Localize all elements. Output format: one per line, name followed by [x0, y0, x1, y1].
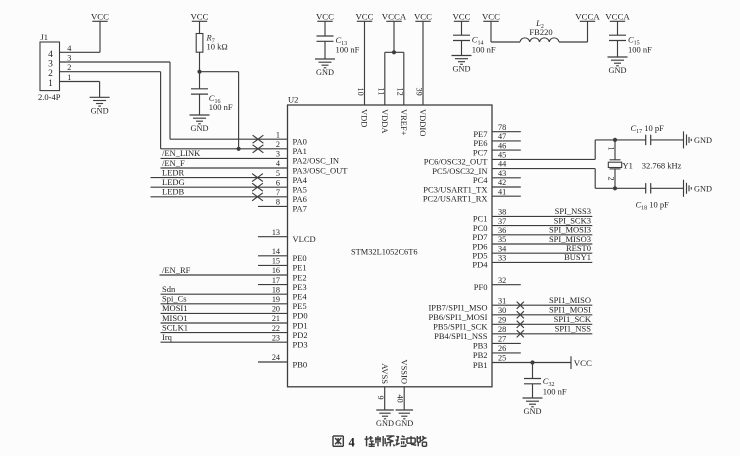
wire net SPI1_NSS: [492, 333, 592, 335]
pin number 13: [272, 228, 280, 237]
no-connect X on PA1: [253, 145, 264, 153]
pin number 32: [498, 276, 506, 285]
pin label PB4/SPI1_NSS: [434, 331, 488, 341]
wire net SPI1_MOSI: [492, 314, 592, 316]
wire C15 to GND: [617, 41, 619, 58]
connector J1: [40, 42, 60, 91]
svg-text:GND: GND: [191, 124, 209, 133]
svg-text:VCC: VCC: [482, 11, 500, 21]
node net label SPI_MOSI3: [549, 225, 591, 235]
pin number 1 (J1 inside): [48, 79, 53, 89]
capacitor C13: [317, 36, 334, 41]
wire VCC to VDD pin 10: [364, 21, 366, 105]
wire pin 14 stub: [258, 255, 288, 257]
no-connect X on pin 31: [517, 302, 524, 309]
wire PC5/OSC32_IN to crystal: [492, 169, 646, 189]
svg-text:32: 32: [498, 276, 506, 285]
wire pin 47 stub: [492, 140, 521, 142]
svg-text:PE2: PE2: [293, 272, 307, 282]
power symbol VCC (R7): [190, 11, 208, 21]
pin number 78: [498, 123, 506, 132]
pin number 8: [276, 198, 280, 207]
node net label Spi_Cs: [162, 294, 187, 304]
pin number 17: [272, 276, 280, 285]
svg-text:FB220: FB220: [529, 27, 552, 37]
svg-text:14: 14: [272, 247, 280, 256]
svg-text:24: 24: [272, 353, 280, 362]
svg-text:2.0-4P: 2.0-4P: [38, 92, 61, 102]
svg-text:23: 23: [272, 333, 280, 342]
wire C32 to GND: [532, 384, 534, 398]
wire net SCLK1: [161, 332, 288, 334]
pin label PE3: [293, 282, 307, 292]
svg-text:1: 1: [276, 130, 280, 139]
svg-text:21: 21: [272, 314, 280, 323]
pin number 11: [377, 88, 386, 96]
wire J1 pin 3 to PA0: [60, 62, 288, 139]
svg-text:PF0: PF0: [474, 282, 488, 292]
wire L2 to VCCA: [559, 21, 588, 42]
value label C14 100 nF: [472, 45, 496, 55]
wire net LEDR: [151, 177, 288, 179]
svg-text:40: 40: [396, 395, 405, 403]
pin number 5: [276, 169, 280, 178]
pin label PE1: [293, 263, 307, 273]
pin label PB2: [473, 350, 488, 360]
svg-text:PB6/SPI1_MOSI: PB6/SPI1_MOSI: [428, 312, 487, 322]
node net label SPI1_NSS: [555, 324, 592, 334]
svg-text:100 nF: 100 nF: [209, 102, 233, 112]
svg-text:PE0: PE0: [293, 253, 307, 263]
pin label PD6: [472, 241, 487, 251]
svg-text:34: 34: [498, 244, 506, 253]
wire junction to C32: [532, 363, 534, 379]
svg-text:SPI1_NSS: SPI1_NSS: [555, 324, 592, 334]
wire to VDDA pin 11: [384, 52, 386, 105]
ground (AVSS): [376, 410, 394, 428]
pin number 20: [272, 305, 280, 314]
wire C17 to GND: [651, 139, 684, 141]
svg-text:Sdn: Sdn: [162, 284, 176, 294]
wire pin 27 stub: [492, 342, 521, 344]
pin number 33: [498, 254, 506, 263]
pin label PC2/USART1_RX: [423, 194, 488, 204]
pin number 47: [498, 132, 506, 141]
node net label MOSI1: [162, 303, 188, 313]
svg-text:PE5: PE5: [293, 301, 307, 311]
wire net SPI1_MISO: [492, 304, 592, 306]
no-connect X on pin 28: [517, 330, 524, 337]
no-connect X on pin 29: [517, 321, 524, 328]
svg-text:PA3/OSC_OUT: PA3/OSC_OUT: [293, 165, 349, 175]
svg-text:PB3: PB3: [473, 341, 488, 351]
pin number 22: [272, 324, 280, 333]
capacitor C14: [453, 35, 470, 40]
svg-text:6: 6: [276, 178, 280, 187]
pin number 24: [272, 353, 280, 362]
svg-text:LEDB: LEDB: [162, 187, 185, 197]
pin label PC0: [473, 223, 488, 233]
svg-text:VDDIO: VDDIO: [418, 109, 428, 136]
power symbol VCCA (VDDA/VREF+): [382, 11, 407, 21]
wire VCC to L2: [491, 21, 520, 42]
svg-text:8: 8: [276, 198, 280, 207]
node net label /EN_F: [162, 158, 185, 168]
wire junction to PA1 net: [200, 72, 239, 149]
pin number 43: [498, 169, 506, 178]
svg-text:4: 4: [48, 50, 53, 60]
wire J1 pin 2 to PA1: [60, 72, 288, 149]
ground (VSSIO): [395, 410, 413, 428]
pin number 25: [498, 354, 506, 363]
pin label PD4: [472, 260, 488, 270]
pin number 1: [276, 130, 280, 139]
node PB1/C32 junction: [530, 360, 534, 364]
value label C14: [472, 35, 484, 47]
node R7/C16 junction: [197, 70, 201, 74]
svg-text:AVSS: AVSS: [380, 363, 390, 384]
caption figure 4 control system circuit: [333, 436, 427, 450]
pin label PA0: [293, 137, 307, 147]
inductor L2: [520, 38, 559, 42]
wire net MISO1: [161, 322, 288, 324]
svg-text:PB4/SPI1_NSS: PB4/SPI1_NSS: [434, 331, 488, 341]
pin label PA5: [293, 185, 307, 195]
wire net /EN_F: [161, 167, 288, 169]
svg-text:PA1: PA1: [293, 146, 307, 156]
wire pin 8 stub: [258, 205, 288, 207]
value label C16 100 nF: [209, 102, 233, 112]
pin number 34: [498, 244, 506, 253]
pin label PB1: [473, 360, 488, 370]
svg-text:GND: GND: [395, 419, 413, 428]
wire net SPI_MOSI3: [492, 234, 592, 236]
wire net Sdn: [161, 293, 288, 295]
wire C14 to GND: [461, 41, 463, 56]
svg-text:C18 10 pF: C18 10 pF: [636, 200, 670, 212]
svg-text:35: 35: [498, 235, 506, 244]
svg-text:/EN_RF: /EN_RF: [162, 265, 191, 275]
pin number 12: [396, 88, 405, 96]
svg-text:32.768 kHz: 32.768 kHz: [642, 160, 682, 170]
svg-text:20: 20: [272, 305, 280, 314]
svg-text:1: 1: [607, 147, 616, 151]
capacitor C15: [609, 35, 626, 40]
pin number 42: [498, 178, 506, 187]
svg-text:4: 4: [67, 44, 71, 53]
svg-text:SPI1_MOSI: SPI1_MOSI: [549, 305, 591, 315]
pin label PA7: [293, 204, 307, 214]
ground (C17): [684, 131, 712, 148]
node net label SPI1_MISO: [549, 295, 591, 305]
svg-text:Spi_Cs: Spi_Cs: [162, 294, 187, 304]
node net label SPI_SCK3: [554, 215, 591, 225]
pin number 16: [272, 266, 280, 275]
svg-text:19: 19: [272, 295, 280, 304]
value label C13: [336, 35, 348, 47]
pin number 19: [272, 295, 280, 304]
wire net Irq: [161, 341, 288, 343]
ground (C15): [608, 57, 628, 75]
wire PC6/OSC32_OUT to crystal: [492, 140, 646, 160]
wire pin 42 stub: [492, 186, 521, 188]
ground (C32): [523, 398, 543, 416]
svg-text:16: 16: [272, 266, 280, 275]
value label C17 10 pF: [631, 123, 665, 135]
power symbol VCC (C13): [316, 11, 334, 21]
svg-text:PD1: PD1: [293, 320, 308, 330]
svg-text:GND: GND: [609, 66, 627, 75]
svg-text:GND: GND: [453, 65, 471, 74]
crystal Y1: [608, 160, 621, 169]
svg-text:C17 10 pF: C17 10 pF: [631, 123, 665, 135]
wire PB1 to VCC: [492, 362, 571, 364]
wire AVSS to GND: [384, 387, 386, 410]
svg-text:SPI1_SCK: SPI1_SCK: [554, 314, 592, 324]
pin label PC6/OSC32_OUT: [424, 157, 489, 167]
svg-text:VCC: VCC: [452, 11, 470, 21]
wire pin 26 stub: [492, 352, 521, 354]
pin label PC4: [473, 175, 488, 185]
svg-text:VCC: VCC: [316, 11, 334, 21]
no-connect X on pin 30: [517, 311, 524, 318]
pin label VDD: [360, 109, 370, 127]
svg-text:13: 13: [272, 228, 280, 237]
pin label PC5/OSC32_IN: [432, 166, 487, 176]
pin number 29: [498, 316, 506, 325]
capacitor C32: [524, 379, 541, 384]
wire net /EN_RF: [160, 274, 288, 276]
svg-text:2: 2: [276, 140, 280, 149]
node VCCA junction: [392, 50, 396, 54]
svg-text:IPB7/SPI1_MSO: IPB7/SPI1_MSO: [428, 303, 487, 313]
svg-text:GND: GND: [376, 419, 394, 428]
svg-text:100 nF: 100 nF: [472, 45, 496, 55]
wire VCC to R7: [199, 21, 201, 33]
value label 10 kOhm: [207, 41, 228, 51]
pin label PE5: [293, 301, 307, 311]
label STM32L1052C6T6: [351, 248, 418, 257]
pin number 18: [272, 285, 280, 294]
power symbol VCCA (L2 right): [575, 11, 600, 21]
power symbol VCC (C14): [452, 11, 470, 21]
svg-text:2: 2: [48, 69, 53, 79]
power symbol VCCA (C15): [605, 11, 630, 21]
wire pin 17 stub: [258, 284, 288, 286]
pin number 9: [376, 396, 385, 400]
node net label SCLK1: [162, 322, 188, 332]
svg-text:PA4: PA4: [293, 175, 308, 185]
pin number 3 (J1 inside): [48, 60, 53, 70]
wire crystal pin 1: [614, 140, 616, 160]
pin number 40: [396, 395, 405, 403]
pin label PC7: [473, 147, 488, 157]
pin label VREF+: [399, 109, 409, 136]
pin number 44: [498, 160, 506, 169]
svg-text:15: 15: [272, 257, 280, 266]
svg-text:/EN_LINK: /EN_LINK: [162, 148, 201, 158]
svg-text:100 nF: 100 nF: [336, 45, 360, 55]
svg-text:1: 1: [67, 73, 71, 82]
svg-text:VCCA: VCCA: [575, 11, 600, 21]
svg-text:PB1: PB1: [473, 360, 488, 370]
wire pin 24 stub: [258, 361, 288, 363]
pin number 37: [498, 217, 506, 226]
pin number 2 (Y1): [607, 177, 616, 181]
pin number 2 (J1 inside): [48, 69, 53, 79]
value label C15 100 nF: [628, 45, 652, 55]
svg-text:VCC: VCC: [355, 11, 373, 21]
wire net SPI1_SCK: [492, 323, 592, 325]
value label C32: [543, 376, 555, 388]
wire pin 46 stub: [492, 149, 521, 151]
svg-text:Irq: Irq: [162, 332, 173, 342]
svg-text:PB2: PB2: [473, 350, 488, 360]
pin label IPB7/SPI1_MSO: [428, 303, 487, 313]
svg-text:VDDA: VDDA: [380, 109, 390, 134]
pin number 6: [276, 178, 280, 187]
svg-text:STM32L1052C6T6: STM32L1052C6T6: [351, 248, 418, 257]
svg-text:42: 42: [498, 178, 506, 187]
pin label PE0: [293, 253, 307, 263]
svg-text:VCC: VCC: [414, 11, 432, 21]
svg-text:MISO1: MISO1: [162, 313, 188, 323]
svg-text:10 kΩ: 10 kΩ: [207, 41, 228, 51]
svg-text:39: 39: [415, 88, 424, 96]
svg-text:BUSY1: BUSY1: [564, 252, 591, 262]
pin label PD1: [293, 320, 308, 330]
label Y1: [623, 160, 633, 170]
wire net REST0: [492, 252, 592, 254]
power symbol VCC (VDDIO): [414, 11, 432, 21]
svg-text:37: 37: [498, 217, 506, 226]
ground (C18): [684, 180, 712, 197]
pin number 2 (J1 wire): [67, 63, 71, 72]
node net label Irq: [162, 332, 173, 342]
svg-text:U2: U2: [288, 95, 298, 105]
label U2: [288, 95, 298, 105]
svg-text:27: 27: [498, 335, 506, 344]
pin number 35: [498, 235, 506, 244]
wire pin 43 stub: [492, 177, 521, 179]
svg-text:33: 33: [498, 254, 506, 263]
svg-text:/EN_F: /EN_F: [162, 158, 185, 168]
pin label PE2: [293, 272, 307, 282]
svg-text:4: 4: [349, 436, 356, 450]
pin label PD5: [472, 251, 487, 261]
svg-text:PC2/USART1_RX: PC2/USART1_RX: [423, 194, 488, 204]
value label C18 10 pF: [636, 200, 670, 212]
wire net SPI_NSS3: [492, 215, 592, 217]
capacitor C18: [646, 183, 651, 193]
pin number 2: [276, 140, 280, 149]
pin label VDDA: [380, 109, 390, 134]
svg-text:7: 7: [276, 188, 280, 197]
svg-text:31: 31: [498, 296, 506, 305]
node junction on PA1 wire: [237, 147, 241, 151]
wire pin 15 stub: [258, 264, 288, 266]
wire pin 13 stub: [258, 236, 288, 238]
label 2.0-4P: [38, 92, 61, 102]
value label R7: [206, 33, 215, 45]
value label L2: [535, 18, 544, 30]
wire VCC to C14: [461, 21, 463, 35]
ground (C13): [315, 59, 335, 77]
power symbol VCC (VDD): [355, 11, 373, 21]
no-connect X on pin 5: [252, 174, 263, 182]
node net label /EN_LINK: [162, 148, 201, 158]
svg-text:VCC: VCC: [574, 358, 592, 368]
pin number 38: [498, 208, 506, 217]
pin label PE6: [473, 138, 487, 148]
svg-text:MOSI1: MOSI1: [162, 303, 188, 313]
node net label SPI1_MOSI: [549, 305, 591, 315]
node net label LEDR: [162, 167, 185, 177]
pin label PE7: [473, 129, 487, 139]
svg-text:22: 22: [272, 324, 280, 333]
pin number 3: [276, 150, 280, 159]
svg-text:GND: GND: [694, 184, 712, 193]
pin label VLCD: [293, 234, 316, 244]
node net label REST0: [566, 243, 591, 253]
svg-text:GND: GND: [524, 407, 542, 416]
pin number 14: [272, 247, 280, 256]
pin label PB6/SPI1_MOSI: [428, 312, 487, 322]
power symbol VCC (PB1): [571, 356, 592, 369]
svg-text:PE4: PE4: [293, 292, 308, 302]
wire VCC to C13: [324, 21, 326, 36]
wire pin 78 stub: [492, 131, 521, 133]
svg-text:PD2: PD2: [293, 330, 308, 340]
svg-text:36: 36: [498, 226, 506, 235]
wire VCC to VDDIO pin 39: [422, 21, 424, 105]
svg-text:PA6: PA6: [293, 194, 307, 204]
pin number 41: [498, 187, 506, 196]
svg-text:5: 5: [276, 169, 280, 178]
svg-text:26: 26: [498, 344, 506, 353]
svg-text:10: 10: [356, 88, 365, 96]
svg-text:VCC: VCC: [190, 11, 208, 21]
pin label PD2: [293, 330, 308, 340]
svg-text:VLCD: VLCD: [293, 234, 316, 244]
value label C32 100 nF: [543, 387, 567, 397]
wire net SPI_MISO3: [492, 243, 592, 245]
value label C13 100 nF: [336, 45, 360, 55]
wire J1 pin 1 to GND: [60, 82, 100, 98]
ground (C16): [190, 115, 210, 133]
node net label SPI_NSS3: [555, 206, 591, 216]
svg-text:PB0: PB0: [293, 359, 308, 369]
svg-text:43: 43: [498, 169, 506, 178]
svg-text:PD3: PD3: [293, 340, 308, 350]
pin number 30: [498, 306, 506, 315]
wire C18 to GND: [651, 187, 684, 189]
svg-text:29: 29: [498, 316, 506, 325]
pin number 28: [498, 325, 506, 334]
svg-text:SPI1_MISO: SPI1_MISO: [549, 295, 591, 305]
svg-text:100 nF: 100 nF: [628, 45, 652, 55]
pin label PA3/OSC_OUT: [293, 165, 349, 175]
node net label SPI1_SCK: [554, 314, 592, 324]
pin number 15: [272, 257, 280, 266]
svg-text:PE3: PE3: [293, 282, 307, 292]
svg-text:18: 18: [272, 285, 280, 294]
svg-text:45: 45: [498, 151, 506, 160]
wire net Spi_Cs: [161, 303, 288, 305]
svg-text:GND: GND: [694, 136, 712, 145]
pin label PB0: [293, 359, 308, 369]
svg-text:100 nF: 100 nF: [543, 387, 567, 397]
